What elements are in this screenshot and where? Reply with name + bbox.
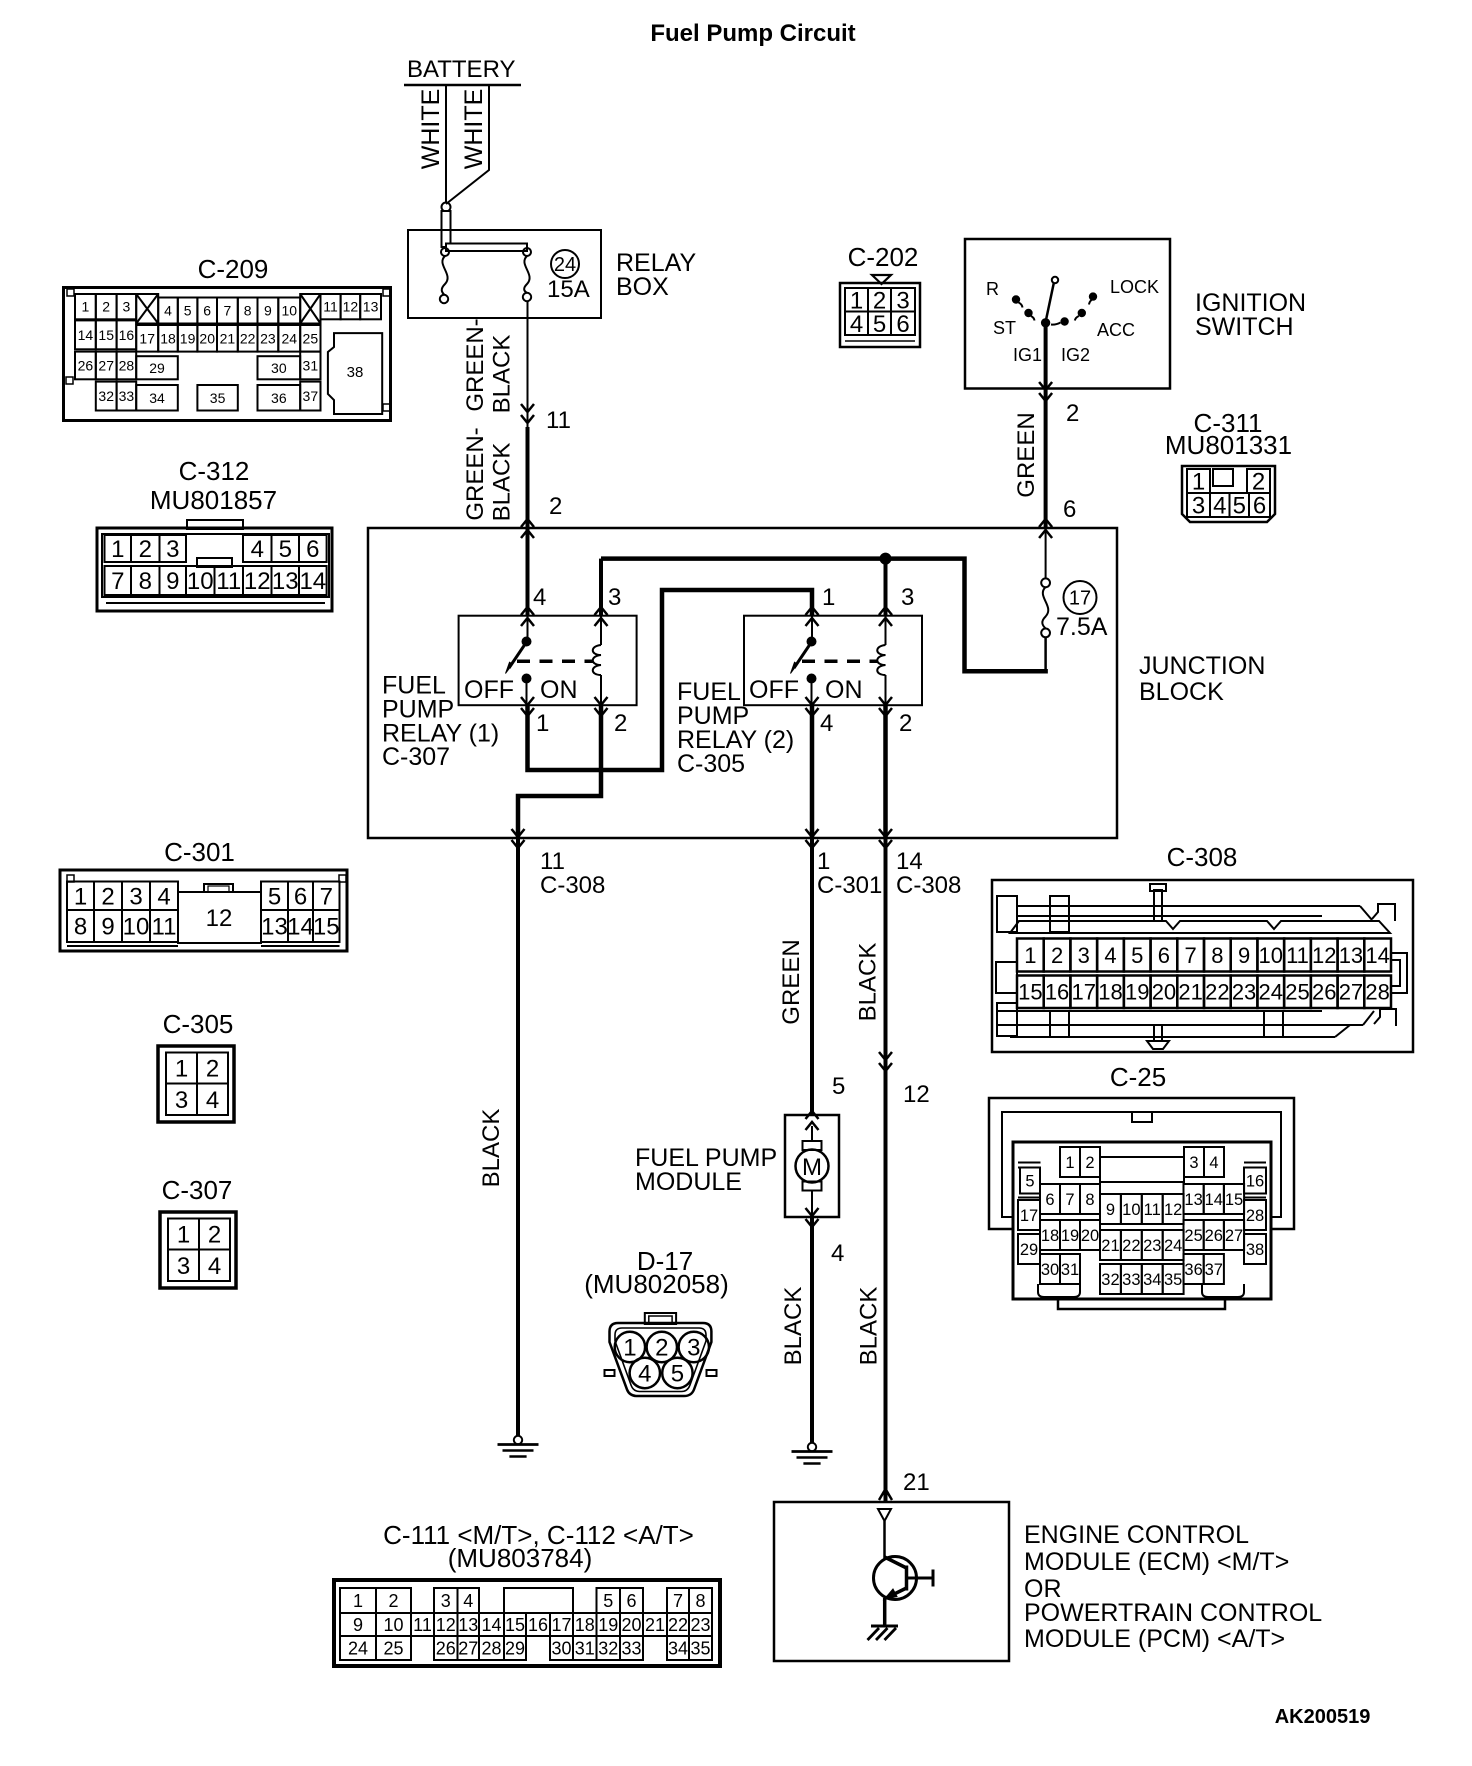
- svg-text:28: 28: [481, 1638, 501, 1658]
- svg-text:2: 2: [208, 1222, 221, 1249]
- connector C-301: [60, 837, 347, 951]
- wire: relay 2 pin 2 to C-308 pin 14: [883, 705, 888, 838]
- svg-text:3: 3: [175, 1087, 188, 1114]
- svg-text:2: 2: [1085, 1154, 1094, 1172]
- ignition switch pivot: [1041, 319, 1049, 327]
- svg-text:C-307: C-307: [382, 743, 450, 771]
- svg-text:8: 8: [695, 1591, 705, 1611]
- svg-text:12: 12: [903, 1081, 930, 1108]
- wire: battery feed right (WHITE): [446, 85, 489, 204]
- bus bar horizontal in relay box: [446, 244, 527, 252]
- fuse 24 bottom terminal: [523, 293, 531, 301]
- fuel pump module pin 4 arrows: [806, 1208, 819, 1227]
- relay 1 pin 4 arrows: [521, 607, 534, 626]
- connector arrows pin 2 ignition: [1039, 382, 1052, 401]
- svg-text:20: 20: [1081, 1227, 1099, 1245]
- svg-text:BLACK: BLACK: [478, 1109, 505, 1188]
- wire: relay 1 common feed: [526, 528, 530, 616]
- svg-text:12: 12: [1164, 1201, 1182, 1219]
- wire: relay 1 coil feed: [599, 559, 603, 616]
- svg-text:27: 27: [458, 1638, 478, 1658]
- svg-text:1: 1: [177, 1222, 190, 1249]
- relay 2 pin 4 arrows: [806, 697, 819, 716]
- svg-text:14: 14: [78, 327, 94, 343]
- svg-text:3: 3: [129, 883, 142, 910]
- svg-text:C-305: C-305: [163, 1009, 234, 1039]
- svg-text:16: 16: [119, 327, 135, 343]
- svg-text:2: 2: [101, 883, 114, 910]
- fuel pump motor M: [796, 1126, 829, 1217]
- svg-text:10: 10: [1259, 943, 1283, 968]
- svg-text:16: 16: [1045, 980, 1069, 1005]
- svg-text:36: 36: [271, 390, 287, 406]
- svg-text:BLACK: BLACK: [489, 335, 516, 414]
- svg-text:ST: ST: [993, 318, 1016, 338]
- svg-text:9: 9: [264, 303, 272, 319]
- svg-text:C-305: C-305: [677, 750, 745, 778]
- svg-text:26: 26: [1312, 980, 1336, 1005]
- svg-text:1: 1: [536, 710, 549, 737]
- junction block exit arrows C-308 pin 14: [879, 829, 892, 848]
- svg-text:C-209: C-209: [198, 254, 269, 284]
- svg-text:3: 3: [1078, 943, 1090, 968]
- svg-text:22: 22: [1205, 980, 1229, 1005]
- svg-text:20: 20: [1152, 980, 1176, 1005]
- svg-text:1: 1: [74, 883, 87, 910]
- svg-text:7: 7: [1065, 1191, 1074, 1209]
- svg-text:OFF: OFF: [464, 676, 514, 704]
- svg-text:27: 27: [1225, 1227, 1243, 1245]
- svg-text:BLACK: BLACK: [489, 443, 516, 522]
- wire: C-308 pin 11 to ground (BLACK): [516, 838, 520, 1436]
- svg-text:11: 11: [152, 914, 177, 941]
- svg-text:17: 17: [551, 1615, 571, 1635]
- svg-text:11: 11: [216, 568, 241, 595]
- svg-text:3: 3: [166, 536, 179, 563]
- svg-text:1: 1: [82, 299, 90, 315]
- svg-text:ON: ON: [825, 676, 863, 704]
- svg-text:14: 14: [299, 568, 326, 595]
- svg-text:2: 2: [549, 493, 562, 520]
- contact LOCK: [1089, 293, 1096, 300]
- svg-text:WHITE: WHITE: [417, 89, 445, 170]
- svg-text:9: 9: [353, 1615, 363, 1635]
- svg-text:19: 19: [180, 330, 196, 346]
- fuse 17 top terminal: [1041, 578, 1050, 587]
- relay 2 label: [677, 678, 794, 778]
- ECM entry arrow: [879, 1489, 892, 1500]
- svg-text:MODULE (PCM) <A/T>: MODULE (PCM) <A/T>: [1024, 1625, 1285, 1653]
- svg-text:15A: 15A: [547, 276, 590, 303]
- svg-text:5: 5: [671, 1361, 684, 1388]
- ignition switch rotor lever: [1052, 277, 1058, 283]
- svg-text:34: 34: [149, 390, 165, 406]
- relay 1 OFF/ON labels: [464, 676, 578, 704]
- svg-text:22: 22: [1122, 1237, 1140, 1255]
- svg-text:12: 12: [206, 905, 233, 932]
- svg-text:31: 31: [303, 357, 319, 373]
- fuse number 17: [1064, 581, 1097, 614]
- svg-text:32: 32: [1101, 1271, 1119, 1289]
- svg-text:4: 4: [157, 883, 170, 910]
- svg-text:17: 17: [1069, 588, 1091, 610]
- svg-text:24: 24: [1164, 1237, 1182, 1255]
- svg-text:6: 6: [294, 883, 307, 910]
- svg-text:3: 3: [441, 1591, 451, 1611]
- ECM box: [774, 1502, 1009, 1661]
- svg-text:MU801857: MU801857: [150, 485, 277, 515]
- svg-text:15: 15: [98, 327, 114, 343]
- svg-text:34: 34: [668, 1638, 688, 1658]
- svg-text:16: 16: [1246, 1172, 1264, 1190]
- svg-text:19: 19: [1061, 1227, 1079, 1245]
- svg-text:14: 14: [1365, 943, 1389, 968]
- svg-text:8: 8: [139, 568, 152, 595]
- svg-text:24: 24: [281, 330, 297, 346]
- ECM input triangle: [878, 1509, 891, 1521]
- svg-text:7: 7: [224, 303, 232, 319]
- svg-text:R: R: [986, 279, 999, 299]
- svg-text:7: 7: [1185, 943, 1197, 968]
- wire: transistor emitter to chassis ground: [883, 1598, 887, 1626]
- svg-text:6: 6: [626, 1591, 636, 1611]
- svg-text:17: 17: [1072, 980, 1096, 1005]
- svg-text:25: 25: [383, 1638, 403, 1658]
- svg-text:7.5A: 7.5A: [1056, 613, 1108, 641]
- ignition switch label: [1195, 289, 1306, 341]
- svg-text:21: 21: [1101, 1237, 1119, 1255]
- wire: fuse 17 feed: [1045, 528, 1047, 579]
- svg-text:8: 8: [244, 303, 252, 319]
- svg-text:24: 24: [1259, 980, 1283, 1005]
- svg-text:2: 2: [1051, 943, 1063, 968]
- svg-text:MODULE (ECM) <M/T>: MODULE (ECM) <M/T>: [1024, 1548, 1289, 1576]
- svg-text:13: 13: [363, 299, 379, 315]
- svg-text:2: 2: [655, 1335, 668, 1362]
- svg-text:7: 7: [320, 883, 333, 910]
- svg-text:13: 13: [261, 914, 288, 941]
- svg-text:21: 21: [645, 1615, 665, 1635]
- svg-text:3: 3: [123, 299, 131, 315]
- svg-text:BOX: BOX: [616, 273, 669, 301]
- svg-text:11: 11: [323, 299, 338, 315]
- svg-text:12: 12: [343, 299, 359, 315]
- svg-text:4: 4: [463, 1591, 473, 1611]
- svg-text:37: 37: [1205, 1261, 1223, 1279]
- svg-text:31: 31: [1061, 1261, 1079, 1279]
- fuse 24 top terminal: [523, 248, 531, 256]
- svg-text:10: 10: [187, 568, 214, 595]
- svg-text:6: 6: [203, 303, 211, 319]
- svg-text:1: 1: [353, 1591, 363, 1611]
- svg-text:35: 35: [1164, 1271, 1182, 1289]
- svg-text:34: 34: [1143, 1271, 1161, 1289]
- svg-text:4: 4: [1209, 1154, 1218, 1172]
- svg-text:8: 8: [1211, 943, 1223, 968]
- svg-text:GREEN-: GREEN-: [462, 318, 489, 411]
- svg-text:1: 1: [817, 848, 830, 875]
- svg-text:11: 11: [413, 1615, 432, 1635]
- svg-text:36: 36: [1184, 1261, 1202, 1279]
- svg-text:32: 32: [598, 1638, 618, 1658]
- svg-text:18: 18: [160, 330, 176, 346]
- svg-text:12: 12: [1312, 943, 1336, 968]
- svg-text:38: 38: [1246, 1241, 1264, 1259]
- svg-text:22: 22: [240, 330, 256, 346]
- svg-text:2: 2: [388, 1591, 398, 1611]
- svg-text:1: 1: [1192, 469, 1205, 496]
- svg-text:BATTERY: BATTERY: [407, 56, 515, 83]
- svg-text:30: 30: [271, 360, 287, 376]
- svg-text:9: 9: [166, 568, 179, 595]
- svg-text:IG2: IG2: [1061, 345, 1090, 365]
- fuel pump relay 1 box: [459, 616, 637, 706]
- svg-text:15: 15: [1018, 980, 1042, 1005]
- svg-text:GREEN: GREEN: [1013, 412, 1040, 497]
- connector arrows junction block pin 6: [1039, 519, 1052, 538]
- svg-text:11: 11: [1286, 943, 1309, 968]
- svg-text:27: 27: [98, 357, 114, 373]
- svg-text:18: 18: [1041, 1227, 1059, 1245]
- svg-text:13: 13: [1339, 943, 1363, 968]
- svg-text:37: 37: [303, 388, 319, 404]
- pin label 14 C-308: [896, 848, 961, 899]
- svg-text:29: 29: [1020, 1241, 1038, 1259]
- connector arrows pin 2 junction block entry: [521, 519, 534, 538]
- svg-text:1: 1: [1024, 943, 1036, 968]
- ground left: [498, 1436, 539, 1457]
- svg-text:6: 6: [306, 536, 319, 563]
- pin label 1 C-301: [817, 848, 882, 899]
- svg-text:13: 13: [272, 568, 299, 595]
- svg-text:18: 18: [1098, 980, 1122, 1005]
- svg-text:33: 33: [119, 388, 135, 404]
- svg-text:30: 30: [1041, 1261, 1059, 1279]
- svg-text:15: 15: [505, 1615, 525, 1635]
- svg-text:22: 22: [668, 1615, 688, 1635]
- svg-text:4: 4: [533, 584, 546, 611]
- svg-text:2: 2: [1066, 400, 1079, 427]
- svg-text:23: 23: [690, 1615, 710, 1635]
- svg-text:5: 5: [832, 1073, 845, 1100]
- svg-text:23: 23: [260, 330, 276, 346]
- fuse 17 element: [1042, 587, 1048, 629]
- svg-text:JUNCTION: JUNCTION: [1139, 652, 1265, 680]
- svg-text:35: 35: [690, 1638, 710, 1658]
- contact IG2: [1061, 318, 1068, 325]
- svg-text:11: 11: [1144, 1201, 1161, 1219]
- fuse (spare) element: [442, 256, 448, 295]
- wire: fuel pump to ground (BLACK): [810, 1217, 814, 1443]
- svg-text:20: 20: [621, 1615, 641, 1635]
- svg-text:8: 8: [74, 914, 87, 941]
- fuse number 24: [551, 250, 579, 278]
- junction block exit arrows C-308 pin 11: [512, 829, 525, 848]
- splice node at fusible link: [442, 203, 451, 212]
- connector C-209: [64, 254, 391, 421]
- svg-text:BLACK: BLACK: [855, 943, 882, 1022]
- svg-text:8: 8: [1085, 1191, 1094, 1209]
- svg-text:9: 9: [101, 914, 114, 941]
- svg-text:10: 10: [123, 914, 150, 941]
- relay 2 pin 2 arrows: [879, 697, 892, 716]
- relay 1 mechanical link (dashed): [517, 660, 593, 664]
- ECM label: [1024, 1521, 1322, 1653]
- contact ST: [1025, 309, 1032, 316]
- svg-text:25: 25: [1184, 1227, 1202, 1245]
- svg-text:33: 33: [1122, 1271, 1140, 1289]
- svg-text:6: 6: [1045, 1191, 1054, 1209]
- svg-text:25: 25: [1285, 980, 1309, 1005]
- svg-text:12: 12: [244, 568, 271, 595]
- svg-text:27: 27: [1339, 980, 1363, 1005]
- svg-text:POWERTRAIN CONTROL: POWERTRAIN CONTROL: [1024, 1599, 1322, 1627]
- svg-text:IG1: IG1: [1013, 345, 1042, 365]
- svg-text:14: 14: [481, 1615, 501, 1635]
- svg-text:C-25: C-25: [1110, 1062, 1166, 1092]
- relay box label: [616, 249, 696, 301]
- relay 1 coil: [593, 616, 601, 705]
- svg-text:3: 3: [1192, 493, 1205, 520]
- svg-text:23: 23: [1232, 980, 1256, 1005]
- svg-text:2: 2: [1252, 469, 1265, 496]
- svg-text:14: 14: [1205, 1191, 1223, 1209]
- svg-text:10: 10: [383, 1615, 403, 1635]
- svg-text:4: 4: [164, 303, 172, 319]
- wire: battery feed left (WHITE): [445, 85, 447, 203]
- svg-text:5: 5: [279, 536, 292, 563]
- svg-text:9: 9: [1106, 1201, 1115, 1219]
- svg-text:6: 6: [1063, 496, 1076, 523]
- svg-text:19: 19: [1125, 980, 1149, 1005]
- relay 2 OFF/ON labels: [749, 676, 863, 704]
- svg-text:5: 5: [1025, 1172, 1034, 1190]
- svg-text:20: 20: [199, 330, 215, 346]
- svg-text:32: 32: [98, 388, 114, 404]
- svg-text:26: 26: [78, 357, 94, 373]
- svg-text:1: 1: [175, 1056, 188, 1083]
- connector C-305: [158, 1009, 234, 1122]
- svg-text:38: 38: [347, 364, 364, 381]
- svg-text:2: 2: [102, 299, 110, 315]
- svg-text:OFF: OFF: [749, 676, 799, 704]
- fuel pump module box: [785, 1115, 839, 1217]
- svg-text:17: 17: [139, 330, 155, 346]
- svg-text:21: 21: [1178, 980, 1202, 1005]
- svg-text:29: 29: [505, 1638, 525, 1658]
- wire: fuse 24 output GREEN-BLACK: [527, 301, 529, 427]
- connector D-17: [584, 1246, 729, 1396]
- wire: ignition switch output IG2: [1044, 322, 1048, 528]
- relay 1 label: [382, 672, 499, 772]
- svg-text:5: 5: [184, 303, 192, 319]
- svg-text:19: 19: [598, 1615, 618, 1635]
- fuel pump module label: [635, 1144, 777, 1196]
- svg-text:21: 21: [220, 330, 236, 346]
- relay 2 pin 1 arrows: [806, 607, 819, 626]
- wire: relay 2 coil feed: [884, 560, 888, 616]
- svg-text:1: 1: [822, 584, 835, 611]
- svg-text:23: 23: [1143, 1237, 1161, 1255]
- svg-text:3: 3: [177, 1253, 190, 1280]
- svg-text:C-312: C-312: [179, 456, 250, 486]
- svg-text:28: 28: [119, 357, 135, 373]
- svg-text:6: 6: [1253, 493, 1266, 520]
- svg-text:4: 4: [251, 536, 264, 563]
- wire: fuse 17 to relay coils: [1044, 637, 1047, 669]
- svg-text:ON: ON: [540, 676, 578, 704]
- connector C-311: [1165, 408, 1292, 522]
- svg-text:2: 2: [899, 710, 912, 737]
- svg-text:16: 16: [528, 1615, 548, 1635]
- svg-text:21: 21: [903, 1469, 930, 1496]
- svg-text:ACC: ACC: [1097, 320, 1135, 340]
- wire: relay 1 pin 2 to C-308 pin 11: [518, 705, 601, 838]
- fuel pump module pin 5 arrows: [806, 1111, 819, 1130]
- transistor Q (ECM driver): [874, 1557, 934, 1600]
- relay 2 coil: [877, 616, 885, 705]
- svg-text:24: 24: [554, 254, 576, 276]
- svg-text:26: 26: [1205, 1227, 1223, 1245]
- junction block label: [1139, 652, 1265, 706]
- svg-text:33: 33: [621, 1638, 641, 1658]
- svg-text:C-202: C-202: [848, 242, 919, 272]
- svg-text:Fuel Pump Circuit: Fuel Pump Circuit: [650, 20, 855, 47]
- svg-text:5: 5: [603, 1591, 613, 1611]
- svg-text:6: 6: [896, 311, 909, 338]
- svg-text:6: 6: [1158, 943, 1170, 968]
- svg-text:5: 5: [1233, 493, 1246, 520]
- pin label 11 C-308: [540, 848, 605, 899]
- svg-text:10: 10: [1122, 1201, 1140, 1219]
- svg-text:2: 2: [139, 536, 152, 563]
- svg-text:4: 4: [820, 710, 833, 737]
- svg-text:29: 29: [149, 360, 165, 376]
- svg-text:4: 4: [638, 1361, 651, 1388]
- svg-text:13: 13: [1184, 1191, 1202, 1209]
- wire: relay 2 pin 4 to C-301 pin 1: [810, 705, 815, 838]
- connector C-25: [989, 1062, 1294, 1309]
- svg-text:18: 18: [575, 1615, 595, 1635]
- wire: C-301 pin 1 to fuel pump (GREEN): [810, 838, 814, 1115]
- svg-text:4: 4: [208, 1253, 221, 1280]
- svg-text:11: 11: [546, 407, 571, 434]
- fuse 24 element: [524, 256, 529, 293]
- svg-text:3: 3: [901, 584, 914, 611]
- svg-text:1: 1: [1065, 1154, 1074, 1172]
- svg-text:15: 15: [313, 914, 340, 941]
- ignition switch box: [965, 239, 1170, 389]
- svg-text:26: 26: [436, 1638, 456, 1658]
- svg-text:1: 1: [623, 1335, 636, 1362]
- svg-text:15: 15: [1225, 1191, 1243, 1209]
- svg-text:17: 17: [1020, 1207, 1038, 1225]
- wire: to junction block (GREEN-BLACK): [526, 427, 530, 528]
- fusible link bar vertical: [442, 211, 451, 247]
- svg-text:24: 24: [348, 1638, 368, 1658]
- svg-text:31: 31: [575, 1638, 595, 1658]
- relay 1 pin 1 arrows: [521, 697, 534, 716]
- svg-text:7: 7: [673, 1591, 683, 1611]
- svg-text:13: 13: [458, 1615, 478, 1635]
- svg-text:BLOCK: BLOCK: [1139, 678, 1224, 706]
- fuse 17 bottom terminal: [1041, 629, 1050, 638]
- svg-text:C-308: C-308: [896, 872, 961, 899]
- svg-text:5: 5: [268, 883, 281, 910]
- svg-text:10: 10: [281, 303, 297, 319]
- svg-text:(MU803784): (MU803784): [448, 1543, 593, 1573]
- svg-text:4: 4: [1213, 493, 1226, 520]
